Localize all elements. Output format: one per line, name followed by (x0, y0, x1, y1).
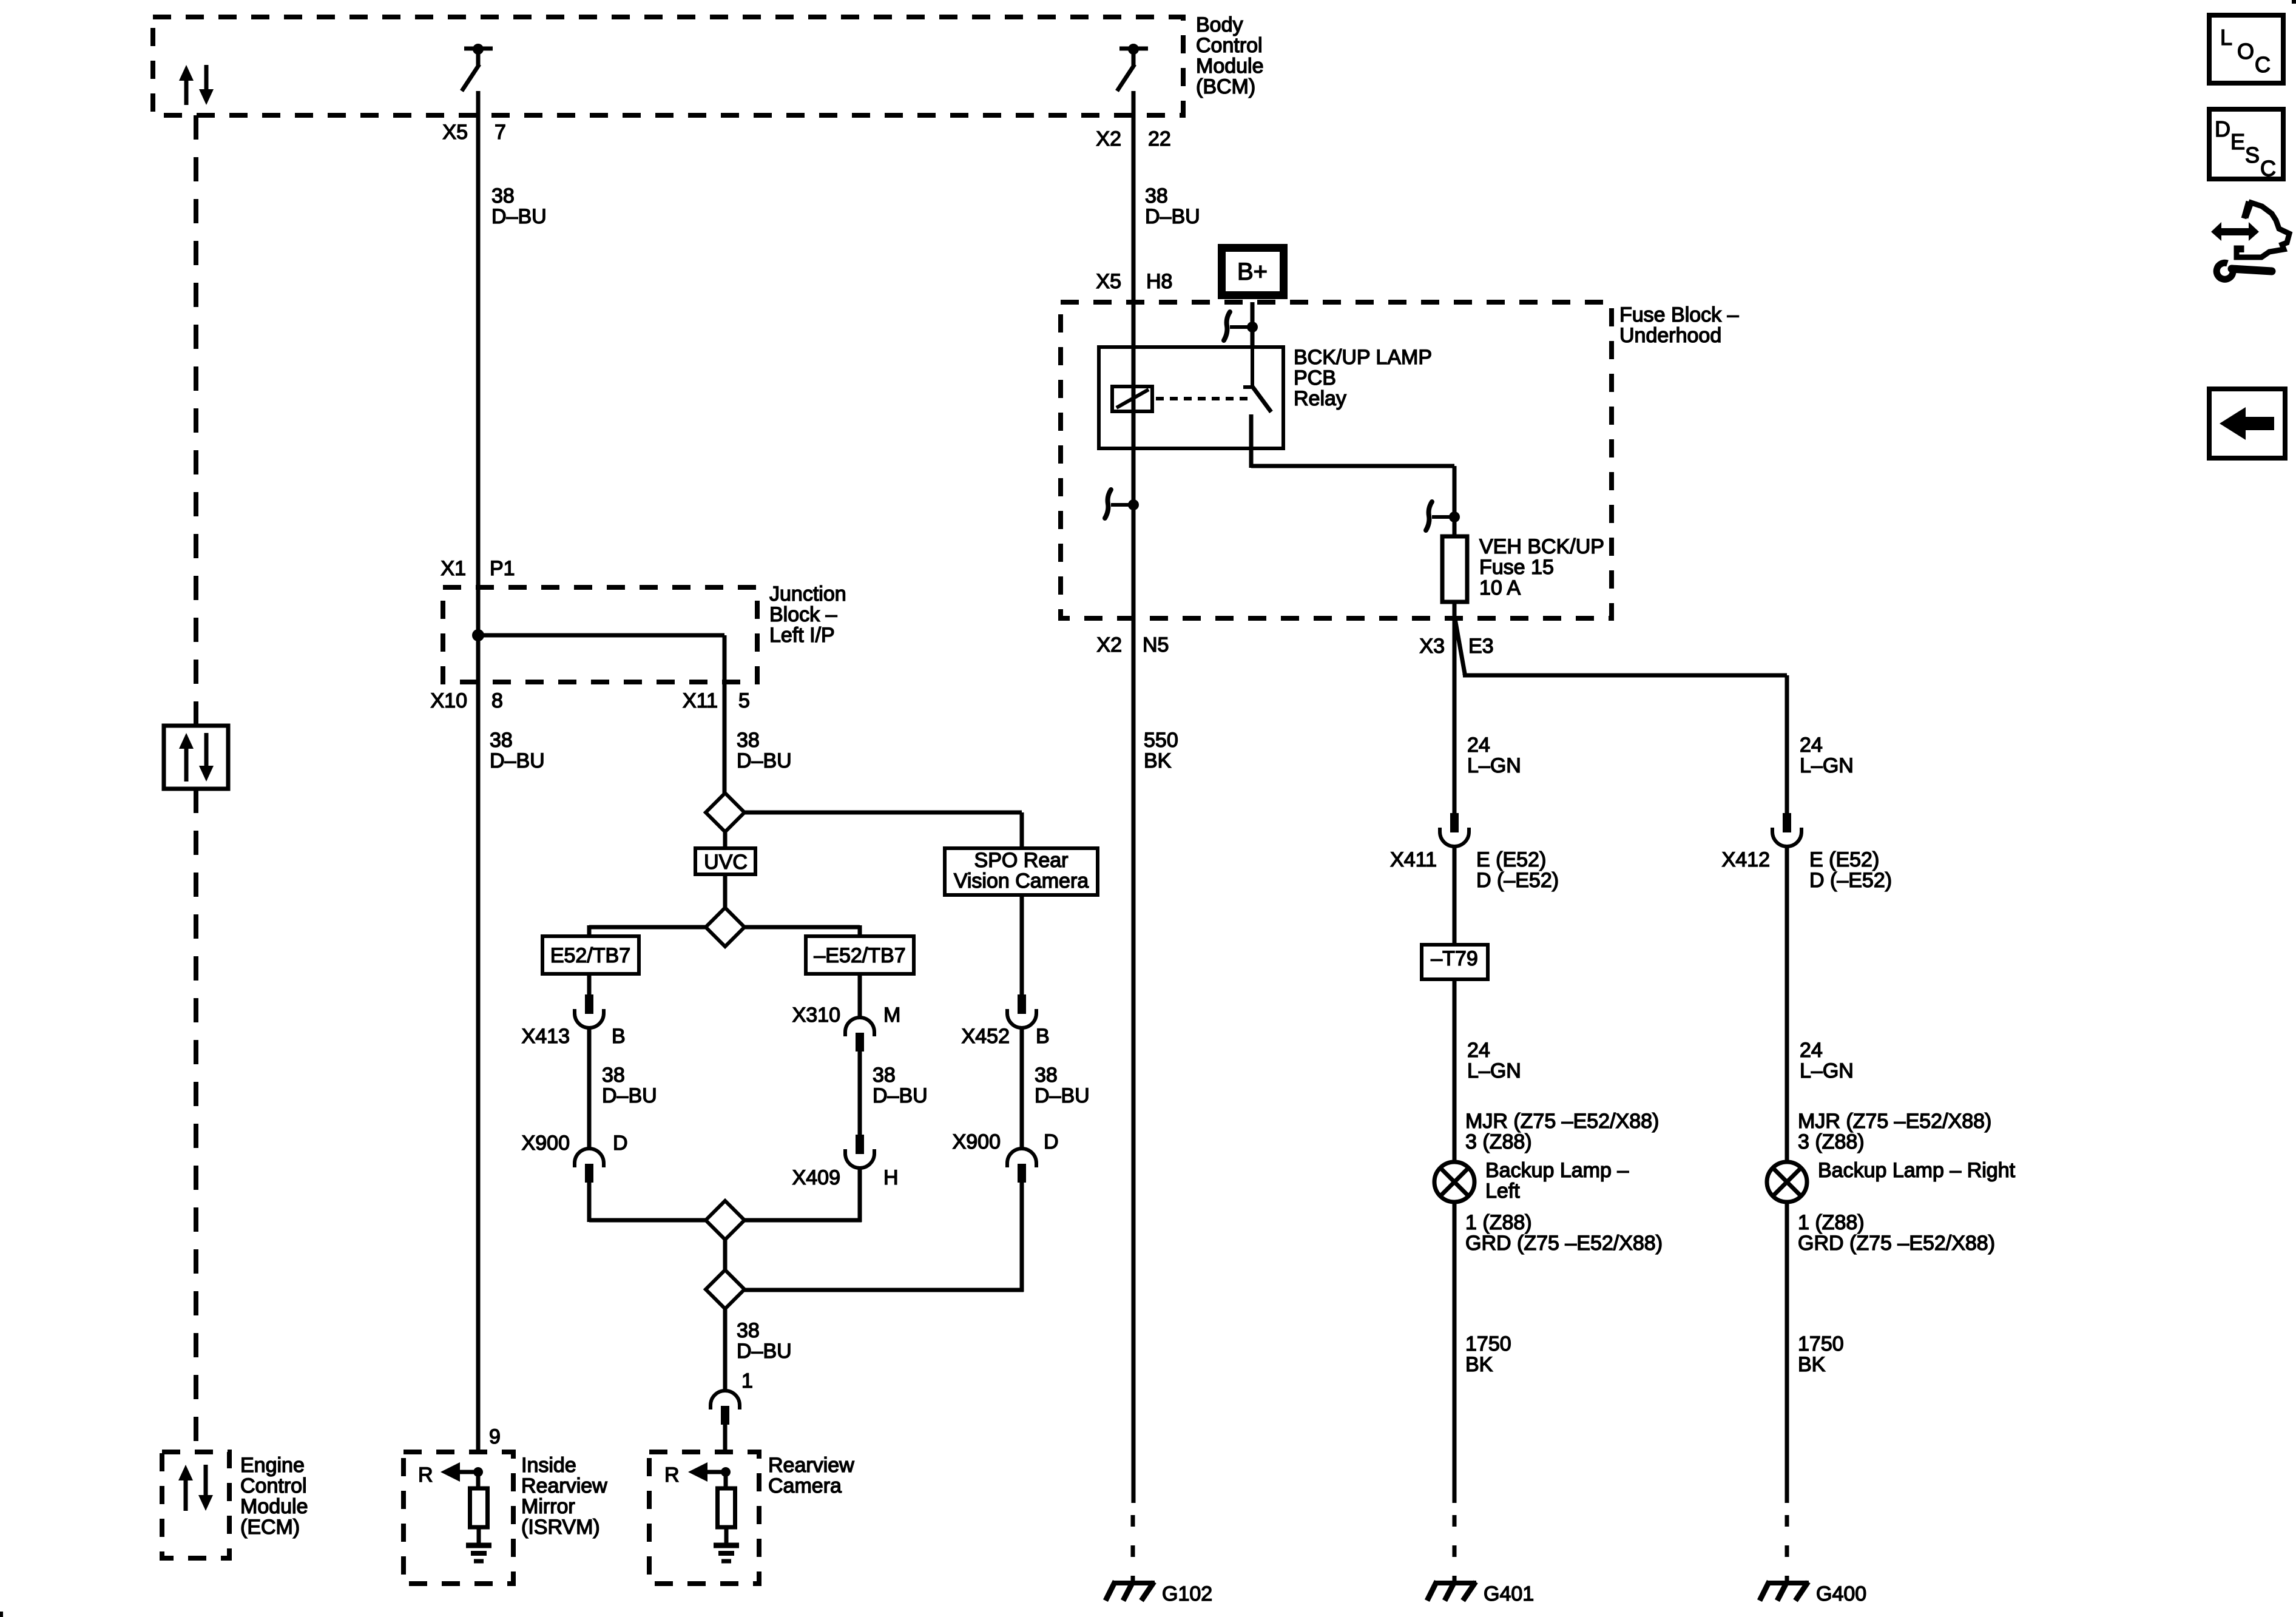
svg-text:M: M (883, 1004, 900, 1027)
svg-text:Control: Control (240, 1474, 307, 1497)
svg-text:X11: X11 (683, 689, 718, 712)
component box UVC (695, 832, 755, 874)
pin label X1 | P1 (441, 557, 515, 580)
svg-text:X3: X3 (1419, 635, 1445, 658)
svg-text:1 (Z88): 1 (Z88) (1798, 1211, 1865, 1234)
svg-text:7: 7 (495, 121, 506, 144)
pin label X10 | 8 (431, 689, 503, 712)
label X413 | B (522, 1025, 626, 1048)
svg-text:24: 24 (1800, 734, 1823, 757)
svg-text:PCB: PCB (1294, 366, 1336, 390)
svg-text:Rearview: Rearview (521, 1474, 607, 1497)
label: Rearview Camera (768, 1454, 854, 1497)
svg-text:VEH BCK/UP: VEH BCK/UP (1479, 535, 1604, 558)
svg-text:D: D (613, 1132, 628, 1155)
svg-text:G401: G401 (1484, 1582, 1534, 1605)
wire: left lamp to ground G401 (1453, 1202, 1457, 1503)
svg-text:B+: B+ (1237, 258, 1268, 285)
pin label X2 | N5 at fuse block (1096, 633, 1169, 657)
camera internal ground (714, 1527, 739, 1561)
svg-text:GRD (Z75 –E52/X88): GRD (Z75 –E52/X88) (1798, 1232, 1995, 1255)
svg-text:38: 38 (737, 1319, 760, 1342)
svg-text:D: D (1044, 1130, 1059, 1153)
svg-text:D–BU: D–BU (873, 1084, 928, 1107)
svg-text:MJR (Z75 –E52/X88): MJR (Z75 –E52/X88) (1798, 1110, 1991, 1133)
module box: Engine Control Module (ECM), dashed outline (162, 1452, 229, 1558)
sidebar icon: vehicle with wrench (2211, 201, 2289, 279)
svg-text:X5: X5 (442, 121, 468, 144)
pin label X11 | 5 (683, 689, 750, 712)
wire: splice 2 right branch to -E52/TB7 (745, 925, 860, 936)
sidebar button back-arrow (2209, 389, 2285, 458)
wire label 24 L-GN (right branch) (1800, 734, 1854, 777)
svg-text:9: 9 (489, 1425, 501, 1448)
svg-text:Camera: Camera (768, 1474, 842, 1497)
svg-text:Fuse Block –: Fuse Block – (1619, 303, 1739, 326)
label X411 and terminals E/D (1390, 848, 1559, 892)
svg-text:24: 24 (1800, 1039, 1823, 1062)
wire label 38 D-BU (X11 leg) (737, 729, 792, 772)
svg-text:38: 38 (1145, 184, 1168, 208)
svg-text:22: 22 (1148, 127, 1171, 150)
svg-text:L: L (2220, 25, 2232, 50)
svg-text:Inside: Inside (521, 1454, 576, 1477)
svg-text:Rearview: Rearview (768, 1454, 854, 1477)
label G102 (1162, 1582, 1212, 1605)
svg-text:BK: BK (1798, 1353, 1826, 1376)
svg-text:D–BU: D–BU (491, 205, 547, 228)
label: Inside Rearview Mirror (ISRVM) (521, 1454, 607, 1539)
pin label X3 | E3 at fuse block (1419, 635, 1493, 658)
wire: junction block internal branch (478, 635, 724, 682)
svg-text:UVC: UVC (704, 851, 748, 874)
switch contact inside BCM (left, X5-7 output driver) (462, 44, 493, 91)
component box SPO Rear Vision Camera (945, 848, 1098, 895)
label X900 | D (right) (953, 1130, 1059, 1153)
svg-text:Control: Control (1196, 34, 1263, 57)
svg-text:GRD (Z75 –E52/X88): GRD (Z75 –E52/X88) (1465, 1232, 1663, 1255)
svg-text:BCK/UP LAMP: BCK/UP LAMP (1294, 346, 1432, 369)
wire: X11-5 down to splice (723, 682, 727, 795)
terminal label MJR / 3 (right lamp) (1798, 1110, 1991, 1153)
svg-text:BK: BK (1465, 1353, 1493, 1376)
svg-text:Left: Left (1485, 1180, 1520, 1203)
wire: E52/TB7 to X413 (587, 974, 592, 995)
svg-text:Vision Camera: Vision Camera (954, 869, 1089, 893)
svg-text:H: H (883, 1166, 899, 1189)
svg-text:E52/TB7: E52/TB7 (550, 944, 630, 967)
svg-text:L–GN: L–GN (1467, 1059, 1521, 1082)
pin label X5 | 7 at BCM connector (442, 121, 506, 144)
svg-text:D (–E52): D (–E52) (1809, 869, 1892, 892)
switch contact inside BCM (right, X2-22 output driver) (1117, 44, 1148, 91)
svg-text:C: C (2255, 52, 2271, 77)
sidebar button DESC (2209, 109, 2283, 181)
wire: 38 D-BU from BCM X5-7 down to ISRVM (476, 91, 481, 1452)
svg-text:B: B (612, 1025, 626, 1048)
wire label 38 D-BU (X310 leg) (873, 1064, 928, 1107)
svg-text:3 (Z88): 3 (Z88) (1465, 1130, 1532, 1153)
svg-text:1750: 1750 (1465, 1332, 1511, 1355)
svg-text:X411: X411 (1390, 848, 1437, 871)
svg-text:5: 5 (738, 689, 750, 712)
ISRVM input resistor (470, 1472, 488, 1527)
terminal label 1 / GRD (right lamp) (1798, 1211, 1995, 1255)
dashed serial data wire BCM to ECM (194, 115, 198, 1452)
svg-text:R: R (664, 1463, 680, 1487)
svg-text:24: 24 (1467, 1039, 1490, 1062)
svg-text:B: B (1036, 1025, 1050, 1048)
wire: relay output to fuse 15 (1251, 448, 1454, 517)
wire: connector to rearview camera (723, 1425, 728, 1452)
pin label 1 at rearview camera (741, 1369, 753, 1393)
wire: fuse output slant and branch to right lamp (1455, 619, 1787, 814)
wire label 1750 BK (left) (1465, 1332, 1511, 1376)
junction node in junction block (472, 629, 484, 641)
dashed lead into ground G102 (1131, 1515, 1135, 1583)
svg-text:G102: G102 (1162, 1582, 1212, 1605)
dashed lead into ground G400 (1785, 1515, 1789, 1583)
in-line connector X412 (1772, 813, 1801, 846)
page corner artifact top-right (2292, 0, 2296, 4)
wire: UVC to splice 2 (723, 874, 728, 908)
lamp: Backup Lamp - Right (1767, 1162, 1807, 1202)
ISRVM internal ground (466, 1527, 491, 1561)
wire: right lamp to ground G400 (1785, 1202, 1789, 1503)
wire label 24 L-GN (right) (1800, 1039, 1854, 1082)
in-line connector X413 (575, 994, 604, 1028)
svg-text:Module: Module (240, 1495, 308, 1518)
svg-text:38: 38 (737, 729, 760, 752)
module box: Rearview Camera, dashed outline (649, 1452, 759, 1584)
svg-text:Module: Module (1196, 55, 1264, 78)
svg-text:Engine: Engine (240, 1454, 305, 1477)
svg-text:Backup Lamp – Right: Backup Lamp – Right (1818, 1159, 2016, 1182)
wire: splice 1 to SPO Rear Vision Camera (745, 812, 1022, 848)
wire label 38 D-BU (camera leg) (737, 1319, 792, 1363)
module box: Inside Rearview Mirror (ISRVM), dashed outline (403, 1452, 513, 1584)
wire: X452 to X900 (right) (1020, 1027, 1024, 1149)
fuse F15: VEH BCK/UP Fuse 15 10A (1442, 517, 1467, 618)
wire: splice 4 to rearview camera connector (723, 1309, 728, 1391)
splice diamond 3 (706, 1201, 745, 1240)
svg-text:H8: H8 (1146, 270, 1172, 293)
svg-text:S: S (2245, 143, 2260, 167)
component box E52/TB7 (542, 936, 639, 974)
module box: Body Control Module (BCM), dashed outline (153, 17, 1183, 115)
wire: X900 right to splice 4 (745, 1183, 1024, 1292)
svg-text:X10: X10 (431, 689, 468, 712)
svg-text:Relay: Relay (1294, 387, 1346, 410)
wire label 38 D-BU (X413 leg) (602, 1064, 657, 1107)
svg-text:D–BU: D–BU (737, 1340, 792, 1363)
svg-text:D–BU: D–BU (602, 1084, 657, 1107)
svg-text:D (–E52): D (–E52) (1476, 869, 1559, 892)
component box -T79 (1422, 945, 1488, 979)
svg-text:X412: X412 (1722, 848, 1770, 871)
svg-text:X413: X413 (522, 1025, 570, 1048)
label X412 and terminals E/D (1722, 848, 1892, 892)
splice diamond 2 (706, 908, 745, 947)
svg-text:550: 550 (1144, 729, 1178, 752)
splice diamond 4 (706, 1270, 745, 1309)
component box -E52/TB7 (806, 936, 914, 974)
label X452 | B (962, 1025, 1050, 1048)
wire: from BCM X2-22 down through fuse block to G102 (1132, 91, 1136, 1503)
svg-text:D: D (2215, 116, 2230, 141)
svg-text:–T79: –T79 (1431, 947, 1478, 970)
svg-text:10 A: 10 A (1479, 576, 1521, 599)
wire label 550 BK (center) (1144, 729, 1178, 772)
svg-text:X1: X1 (441, 557, 466, 580)
svg-text:X2: X2 (1096, 633, 1122, 657)
wire: X900 left to splice 3 (589, 1183, 706, 1222)
svg-text:38: 38 (490, 729, 513, 752)
svg-text:X2: X2 (1096, 127, 1121, 150)
wire: X413 to X900 (left) (587, 1027, 592, 1149)
relay actuation dashed link (1156, 397, 1249, 400)
svg-text:Underhood: Underhood (1619, 324, 1721, 347)
serial data up/down arrows box (data link) (164, 726, 228, 789)
label G400 (1816, 1582, 1866, 1605)
svg-text:L–GN: L–GN (1467, 754, 1521, 777)
svg-text:38: 38 (873, 1064, 896, 1087)
svg-text:38: 38 (602, 1064, 625, 1087)
camera input resistor (718, 1472, 735, 1527)
module box: Junction Block - Left I/P, dashed outline (443, 587, 757, 682)
svg-text:–E52/TB7: –E52/TB7 (814, 944, 905, 967)
relay coil (1112, 387, 1152, 411)
svg-text:O: O (2237, 39, 2254, 64)
svg-text:3 (Z88): 3 (Z88) (1798, 1130, 1865, 1153)
label X900 | D (left) (522, 1132, 628, 1155)
label X409 | H (792, 1166, 899, 1189)
wire: -T79 to left backup lamp (1453, 979, 1457, 1164)
relay switch contact and blade (1243, 347, 1271, 448)
wire: X411 to -T79 (1453, 846, 1457, 945)
svg-text:MJR (Z75 –E52/X88): MJR (Z75 –E52/X88) (1465, 1110, 1659, 1133)
svg-text:E (E52): E (E52) (1476, 848, 1546, 871)
wire: X412 to right backup lamp (1785, 846, 1789, 1164)
wire: splice 3 to splice 4 (723, 1240, 728, 1272)
sidebar button LOC (2209, 15, 2283, 83)
svg-text:Body: Body (1196, 13, 1243, 36)
svg-text:R: R (418, 1463, 433, 1487)
clip terminal on B+ feed (1224, 312, 1258, 340)
in-line connector X411 (1440, 813, 1469, 846)
svg-text:D–BU: D–BU (490, 749, 545, 772)
label G401 (1484, 1582, 1534, 1605)
dashed lead into ground G401 (1453, 1515, 1457, 1583)
svg-text:8: 8 (491, 689, 503, 712)
svg-text:24: 24 (1467, 734, 1490, 757)
ISRVM internal node (473, 1467, 483, 1477)
label: Backup Lamp - Left (1485, 1159, 1629, 1203)
wire label 38 D-BU (center column) (1145, 184, 1200, 228)
label: Body Control Module (BCM) (1196, 13, 1264, 98)
wire label 38 D-BU (left column) (491, 184, 547, 228)
wire: fuse output left branch to X411 (1453, 618, 1457, 814)
label: Backup Lamp - Right (1818, 1159, 2016, 1182)
svg-text:SPO Rear: SPO Rear (974, 849, 1069, 872)
svg-text:Mirror: Mirror (521, 1495, 575, 1518)
svg-text:N5: N5 (1143, 633, 1169, 657)
svg-text:(ISRVM): (ISRVM) (521, 1516, 600, 1539)
in-line connector X900 (left) (575, 1149, 604, 1183)
wire: B+ feed into relay (1251, 302, 1255, 349)
svg-text:Left I/P: Left I/P (769, 624, 835, 647)
label: Engine Control Module (ECM) (240, 1454, 308, 1539)
svg-text:Block –: Block – (769, 603, 837, 626)
pin label X2 | 22 at BCM connector (1096, 127, 1170, 150)
svg-text:X900: X900 (953, 1130, 1001, 1153)
label X310 | M (792, 1004, 901, 1027)
terminal label MJR / 3 (left lamp) (1465, 1110, 1659, 1153)
in-line connector X310 (845, 1018, 874, 1052)
wire: X310 to X409 (858, 1052, 862, 1135)
svg-text:P1: P1 (490, 557, 515, 580)
svg-text:X452: X452 (962, 1025, 1010, 1048)
svg-text:1 (Z88): 1 (Z88) (1465, 1211, 1532, 1234)
svg-text:E3: E3 (1468, 635, 1494, 658)
camera internal node (721, 1467, 731, 1477)
svg-text:X310: X310 (792, 1004, 840, 1027)
svg-text:C: C (2260, 156, 2276, 181)
wire: SPO camera to X452 (1020, 895, 1024, 995)
clip terminal on center wire in fuse block (1105, 490, 1139, 518)
BCM serial-data up/down arrows (179, 65, 214, 105)
svg-text:1: 1 (741, 1369, 753, 1393)
svg-text:D–BU: D–BU (1035, 1084, 1090, 1107)
module box: Fuse Block - Underhood, dashed outline (1061, 302, 1612, 618)
svg-text:Backup Lamp –: Backup Lamp – (1485, 1159, 1629, 1182)
pin label 9 at ISRVM (489, 1425, 501, 1448)
ground symbol G401 (1427, 1581, 1476, 1601)
svg-text:Fuse 15: Fuse 15 (1479, 556, 1554, 579)
relay box: BCK/UP LAMP PCB Relay (1099, 347, 1283, 448)
in-line connector pin 1 at rearview camera (711, 1391, 740, 1425)
svg-text:38: 38 (1035, 1064, 1058, 1087)
wire label 24 L-GN (left branch) (1467, 734, 1521, 777)
label: Junction Block - Left I/P (769, 582, 846, 647)
svg-text:E (E52): E (E52) (1809, 848, 1879, 871)
wire label 38 D-BU (X452 leg) (1035, 1064, 1090, 1107)
power feed B+ box (1222, 248, 1284, 295)
svg-text:38: 38 (491, 184, 515, 208)
svg-text:BK: BK (1144, 749, 1172, 772)
wire label 1750 BK (right) (1798, 1332, 1844, 1376)
clip terminal on relay-fuse wire (1426, 502, 1460, 530)
svg-text:L–GN: L–GN (1800, 754, 1854, 777)
label: VEH BCK/UP Fuse 15 10 A (1479, 535, 1604, 599)
ground symbol G102 (1106, 1581, 1155, 1601)
ground symbol G400 (1760, 1581, 1809, 1601)
wire: splice 2 left branch to E52/TB7 (589, 925, 706, 936)
svg-text:D–BU: D–BU (1145, 205, 1200, 228)
wire label 24 L-GN (left, below T79) (1467, 1039, 1521, 1082)
wire: X409 to splice 3 (745, 1167, 862, 1222)
lamp: Backup Lamp - Left (1434, 1162, 1474, 1202)
svg-text:E: E (2230, 129, 2245, 154)
svg-text:(ECM): (ECM) (240, 1516, 300, 1539)
in-line connector X452 (1007, 994, 1036, 1028)
terminal label 1 / GRD (left lamp) (1465, 1211, 1663, 1255)
in-line connector X900 (right) (1007, 1149, 1036, 1183)
svg-text:(BCM): (BCM) (1196, 75, 1255, 98)
svg-text:D–BU: D–BU (737, 749, 792, 772)
ISRVM reverse-signal arrow R (418, 1462, 478, 1487)
wire: -E52/TB7 to X310 (858, 974, 862, 1018)
svg-text:L–GN: L–GN (1800, 1059, 1854, 1082)
page corner artifact bottom-left (0, 1612, 3, 1617)
label: Fuse Block - Underhood (1619, 303, 1739, 347)
label: BCK/UP LAMP PCB Relay (1294, 346, 1432, 410)
splice diamond 1 (706, 793, 745, 832)
pin label X5 | H8 at fuse block (1096, 270, 1172, 293)
ECM serial-data up/down arrows (178, 1465, 213, 1511)
in-line connector X409 (845, 1135, 874, 1168)
svg-text:X900: X900 (522, 1132, 570, 1155)
svg-text:1750: 1750 (1798, 1332, 1844, 1355)
svg-text:Junction: Junction (769, 582, 846, 606)
camera reverse-signal arrow R (664, 1462, 726, 1487)
wire label 38 D-BU (X10 leg) (490, 729, 545, 772)
svg-text:X5: X5 (1096, 270, 1121, 293)
svg-text:X409: X409 (792, 1166, 840, 1189)
svg-text:G400: G400 (1816, 1582, 1866, 1605)
